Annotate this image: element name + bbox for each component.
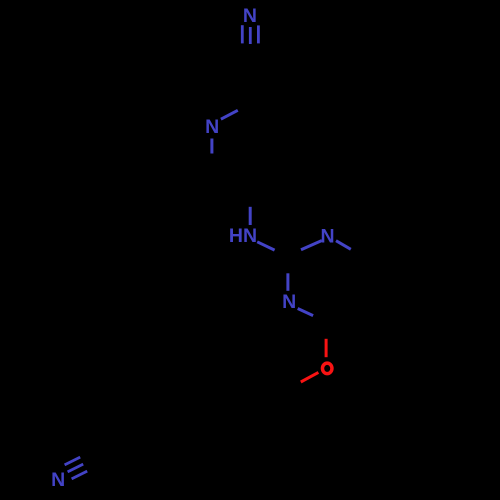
bond N1-C8a (down-right, blue half) [336,241,351,250]
triple bond C#N (bottom), upper line [65,457,81,465]
svg-text:HN: HN [229,225,257,247]
svg-text:N: N [282,291,296,313]
O label (methoxy) [322,363,332,374]
bond C2=N3 (vertical, blue half) [286,273,289,291]
bond N3-C4 (down-right, blue half) [298,309,313,316]
bond O-CH3 (down-left, red half) [301,372,319,382]
svg-text:N: N [205,116,219,138]
triple bond C#N (bottom), lower line [72,471,88,479]
bond N-CH2 (down, blue half) [210,139,213,154]
svg-text:N: N [321,226,335,248]
triple bond C#N (top), middle line [249,27,252,44]
bond HN-C2 (down-right, blue half) [257,242,274,250]
triple bond C#N (top), left line [241,25,244,43]
svg-text:N: N [51,469,65,491]
triple bond C#N (bottom), middle line [68,464,84,472]
triple bond C#N (top), right line [257,25,260,43]
bond CH2-NH (vertical, blue half) [249,207,252,225]
bond C4-O (vertical, red half) [325,339,328,357]
svg-text:N: N [243,5,257,27]
bond N1-C2 (down-left, blue half) [301,241,322,250]
bond N-CH2 (up-right, blue half) [221,110,238,119]
